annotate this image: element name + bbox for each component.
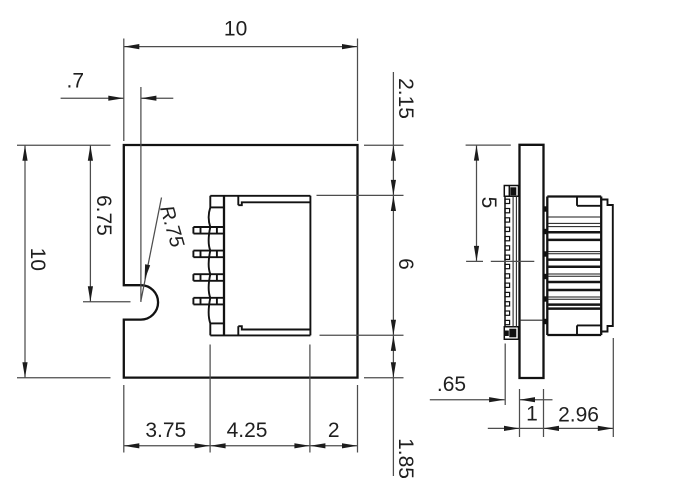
svg-text:2.96: 2.96 xyxy=(558,404,599,427)
svg-text:10: 10 xyxy=(224,18,247,41)
svg-text:1.85: 1.85 xyxy=(394,438,417,479)
svg-text:6.75: 6.75 xyxy=(92,195,115,236)
svg-text:.7: .7 xyxy=(67,69,85,92)
svg-text:1: 1 xyxy=(526,403,538,426)
svg-text:6: 6 xyxy=(394,258,417,270)
svg-text:3.75: 3.75 xyxy=(145,419,186,442)
svg-text:2: 2 xyxy=(328,419,340,442)
svg-text:10: 10 xyxy=(26,248,49,271)
svg-text:2.15: 2.15 xyxy=(394,78,417,119)
svg-text:5: 5 xyxy=(477,197,500,209)
svg-text:4.25: 4.25 xyxy=(227,419,268,442)
svg-text:.65: .65 xyxy=(437,373,466,396)
